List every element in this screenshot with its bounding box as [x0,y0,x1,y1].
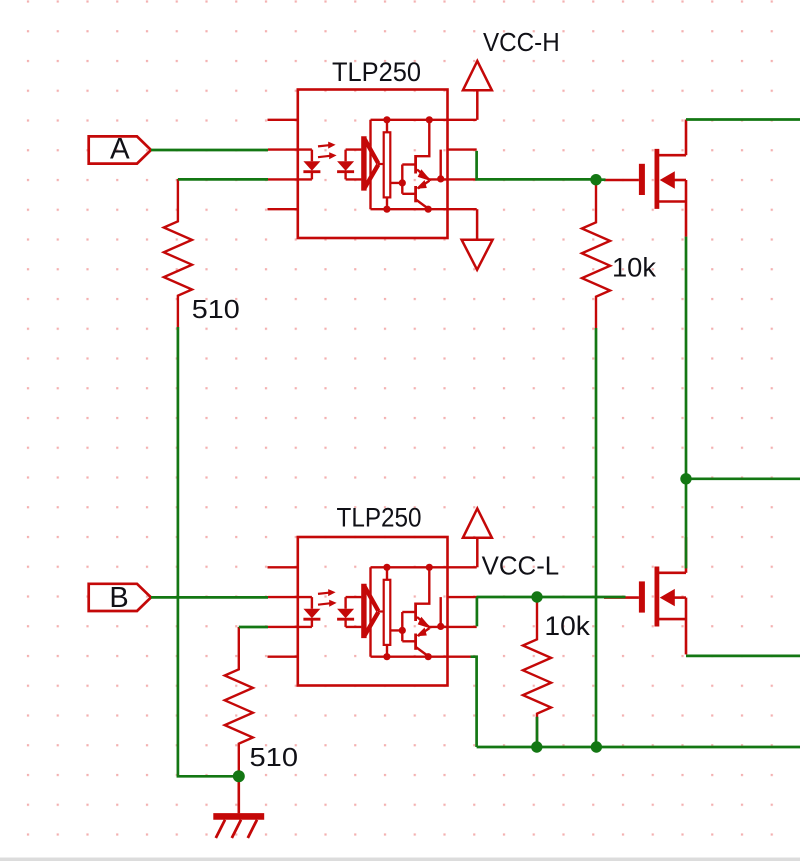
wire lower output pin7 to gate node [477,596,532,599]
node R4 on bottom rail [531,741,542,752]
svg-text:VCC-H: VCC-H [483,29,560,57]
wire upper cathode to R1 [178,178,268,181]
wire bottom rail [477,746,800,749]
power GND-H down triangle [462,209,493,270]
node mid output [680,473,691,484]
resistor R3 510 lower [225,627,253,775]
wire Q2 source to right edge [686,655,800,658]
node lower gate/R4 [531,591,542,602]
transistor Q2 lower MOSFET [604,537,686,654]
wire mid node down to Q2 drain [685,479,688,569]
node upper gate/R2 [590,174,601,185]
wire R1 bottom long drop to ground node [178,327,234,776]
wire upper output bridge pin7-pin6 and to gate node [477,151,591,180]
wire Q1 drain to right edge [686,118,800,121]
svg-text:A: A [110,133,130,166]
wire R4 bottom to bottom rail [536,717,539,747]
wire net A [151,149,268,152]
wire gate node to Q1 gate [602,178,606,181]
svg-text:10k: 10k [544,611,590,641]
svg-text:B: B [109,582,128,614]
wire net B [151,596,268,599]
op-amp U2 TLP250 lower [268,537,477,686]
wire mid node to right edge [686,477,800,480]
svg-text:VCC-L: VCC-L [482,552,560,580]
transistor Q1 upper MOSFET [604,120,686,237]
svg-text:10k: 10k [612,253,657,283]
pin flag A [89,136,151,163]
wire lower gate node to Q2 gate [543,596,626,599]
pin flag B [89,584,151,611]
wires (green nets) [151,120,800,777]
op-amp U1 TLP250 upper [268,90,477,239]
resistor R4 10k lower [523,597,551,745]
svg-text:TLP250: TLP250 [332,57,421,87]
svg-text:TLP250: TLP250 [337,503,422,533]
wire lower pin5 elbow to bottom rail [471,657,477,747]
power VCC-H symbol [463,61,492,120]
ground earth symbol [213,776,264,838]
node ground junction [233,770,245,782]
bottom gray band [0,858,800,861]
resistor R1 510 upper [164,179,192,327]
resistor R2 10k upper [582,180,610,328]
node R2 on bottom rail [591,741,602,752]
svg-text:510: 510 [192,294,240,324]
wire lower cathode to R3 [239,626,268,629]
wire Q1 source down to mid node [685,237,688,479]
wire R2 bottom to bottom rail [595,328,598,747]
svg-text:510: 510 [250,742,299,772]
wire lower output bridge pin7-pin6 [476,597,479,626]
power VCC-L symbol [463,509,492,568]
junction dots (green) [233,174,692,782]
